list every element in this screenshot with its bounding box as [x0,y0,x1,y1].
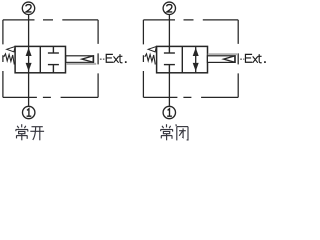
grey shadow above pilot passage (right valve) [208,53,237,55]
spring (right valve) [145,54,156,65]
wire body bottom to port 1 (right valve) [168,73,170,106]
dashed enclosure top edge (right valve) [143,19,238,21]
pilot passage rectangle (left valve) [66,56,94,63]
pilot arrowhead at body corner (left valve) [7,47,16,52]
label chang (right valve caption 常) [161,124,173,140]
flow arrowhead down (right valve) [193,63,199,71]
dashed enclosure top edge (left valve) [3,19,98,21]
node 2 circle (port 2, right valve) [163,2,175,14]
valve body (right valve, 2-position envelope) [157,46,208,72]
dashed pilot line to Ext (right valve) [240,58,244,60]
dashed enclosure bottom edge (right valve) [143,96,238,98]
wire port 2 to body top (right valve) [168,15,170,47]
dashed enclosure right edge (right valve) [237,20,239,98]
pilot triangle (left valve) [82,56,93,62]
wire port 2 to port 1 through valve (left valve) [28,15,30,106]
open flow path line (right valve, right square) [195,46,197,72]
dashed enclosure left edge (right valve) [142,20,144,98]
label bi (right valve caption 闭) [176,124,188,140]
blocked port symbol (right valve, left square) [164,46,175,72]
Ext. label (right valve) [245,54,265,63]
blocked port symbol (left valve, right square) [48,46,59,72]
valve body (left valve, 2-position envelope) [15,46,65,72]
node 2 circle (port 2, left valve) [22,2,34,14]
flow arrowhead down (left valve) [26,63,32,71]
node 1 circle (port 1, left valve) [23,106,35,118]
dashed pilot line to Ext (left valve) [100,58,105,60]
spring (left valve) [4,54,15,65]
pilot passage rectangle (right valve) [207,56,235,63]
label chang (left valve caption 常) [16,124,28,140]
flow arrowhead up (left valve) [26,48,32,56]
label kai (left valve caption 开) [30,127,44,141]
node 1 circle (port 1, right valve) [163,106,175,118]
open flow path line (left valve, left square) [28,46,30,72]
pilot arrowhead at body corner (right valve) [148,47,156,52]
flow arrowhead up (right valve) [193,48,199,56]
position divider (left valve) [39,46,41,72]
dashed enclosure left edge (left valve) [2,20,4,98]
dashed enclosure right edge (left valve) [97,20,99,98]
grey shadow under pilot passage (left valve) [66,63,96,65]
position divider (right valve) [181,46,183,72]
pilot triangle (right valve) [224,56,235,62]
Ext. label (left valve) [106,54,126,63]
dashed enclosure bottom edge (left valve) [3,96,98,98]
